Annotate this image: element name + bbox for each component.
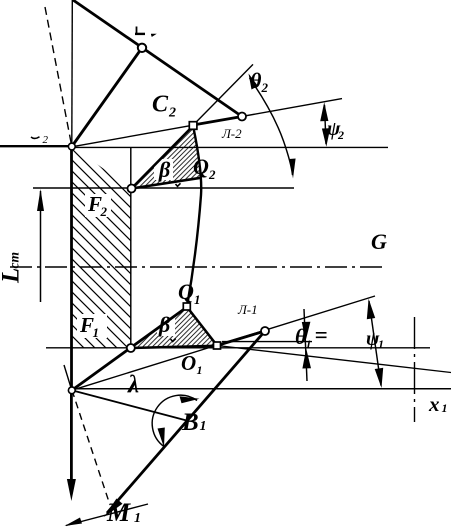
svg-text:G: G xyxy=(371,229,387,254)
svg-text:Л-1: Л-1 xyxy=(237,302,258,317)
svg-text:θ: θ xyxy=(250,68,262,93)
svg-text:2: 2 xyxy=(43,134,49,146)
svg-text:λ: λ xyxy=(127,372,139,399)
svg-text:=: = xyxy=(315,323,328,348)
svg-text:M: M xyxy=(106,498,131,527)
svg-text:1: 1 xyxy=(378,337,384,351)
svg-text:B: B xyxy=(181,409,199,436)
svg-text:2: 2 xyxy=(100,204,108,219)
svg-text:2: 2 xyxy=(337,128,344,142)
svg-text:Q: Q xyxy=(178,279,194,304)
svg-text:β: β xyxy=(158,312,171,337)
svg-text:2: 2 xyxy=(261,80,269,95)
svg-text:1: 1 xyxy=(194,292,201,307)
svg-text:1: 1 xyxy=(93,325,100,340)
svg-text:O: O xyxy=(181,351,196,375)
svg-text:C: C xyxy=(152,92,169,118)
svg-text:1: 1 xyxy=(197,363,203,377)
svg-text:Л-2: Л-2 xyxy=(221,126,242,141)
svg-text:L: L xyxy=(0,268,25,284)
svg-text:1: 1 xyxy=(200,419,207,434)
svg-text:1: 1 xyxy=(442,401,448,415)
svg-text:1: 1 xyxy=(134,511,141,526)
svg-text:1: 1 xyxy=(306,337,312,351)
svg-text:Q: Q xyxy=(193,154,209,179)
svg-text:x: x xyxy=(428,392,440,416)
svg-text:2: 2 xyxy=(168,106,176,121)
svg-text:ст: ст xyxy=(7,252,22,269)
svg-text:2: 2 xyxy=(208,167,216,182)
svg-text:β: β xyxy=(158,157,171,182)
